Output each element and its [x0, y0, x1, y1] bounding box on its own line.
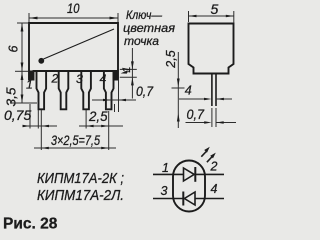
- svg-text:4: 4: [185, 84, 192, 98]
- svg-text:2,5: 2,5: [88, 108, 108, 124]
- svg-text:КИПМ17А-2Л.: КИПМ17А-2Л.: [37, 188, 124, 204]
- svg-text:1: 1: [121, 66, 133, 72]
- svg-text:3,5: 3,5: [5, 87, 19, 106]
- svg-text:2: 2: [210, 160, 218, 174]
- svg-text:6: 6: [7, 45, 21, 52]
- svg-text:0,7: 0,7: [187, 106, 206, 122]
- svg-text:5: 5: [211, 1, 219, 17]
- svg-text:3×2,5=7,5: 3×2,5=7,5: [51, 132, 100, 148]
- svg-text:0,7: 0,7: [136, 83, 154, 99]
- svg-text:2: 2: [51, 72, 59, 86]
- svg-text:3: 3: [76, 72, 83, 86]
- svg-text:точка: точка: [124, 34, 159, 48]
- svg-text:0,75: 0,75: [4, 107, 31, 123]
- svg-text:4: 4: [211, 182, 218, 196]
- svg-text:Рис. 28: Рис. 28: [3, 216, 58, 233]
- svg-text:1: 1: [26, 78, 33, 92]
- svg-text:10: 10: [67, 0, 80, 16]
- svg-text:1: 1: [162, 161, 169, 175]
- svg-text:4: 4: [100, 72, 107, 86]
- svg-text:КИПМ17А-2К ;: КИПМ17А-2К ;: [37, 171, 124, 187]
- svg-text:2,5: 2,5: [164, 50, 178, 68]
- svg-text:цветная: цветная: [123, 21, 175, 35]
- svg-text:3: 3: [161, 184, 168, 198]
